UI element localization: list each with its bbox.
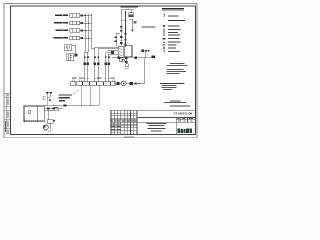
drain header valve <box>64 105 67 107</box>
drain pump base <box>44 131 53 132</box>
pump run joint dot <box>139 83 140 84</box>
pump run valve 1 <box>117 82 120 85</box>
drain header pipe <box>40 105 99 107</box>
expansion tank drop <box>130 10 132 13</box>
drain pump drop <box>48 111 50 120</box>
drain header label <box>59 100 65 101</box>
tank outlet pipes <box>44 109 63 111</box>
riser crossover tick <box>121 20 127 22</box>
tank outlet valves <box>47 107 55 109</box>
pump circles under boiler <box>119 59 125 62</box>
main riser supply <box>120 10 122 47</box>
legend rows <box>168 15 185 51</box>
heating circuit row 4 unit box <box>70 36 92 39</box>
legend title <box>162 8 184 11</box>
manifold drain drops <box>81 85 99 105</box>
riser pair A <box>85 52 89 82</box>
title block texts <box>111 112 193 133</box>
riser union ticks <box>84 78 110 80</box>
pump run check valve <box>135 83 137 85</box>
supply risers from circuits <box>85 14 95 53</box>
gas label <box>142 26 156 27</box>
coil unit box below <box>67 54 78 61</box>
right drop pipe <box>143 58 145 84</box>
gas meter cluster <box>141 50 156 58</box>
boiler body <box>124 45 132 56</box>
heating circuit row 2 unit box <box>70 21 92 24</box>
riser balance valves large <box>84 63 111 66</box>
heating circuit row 3 unit box <box>70 29 92 32</box>
riser valves small <box>84 57 110 59</box>
boiler left connections <box>108 50 118 54</box>
riser fitting stack <box>120 26 127 45</box>
make-up pipe label top <box>120 6 138 10</box>
pump run right of manifold <box>116 83 145 85</box>
distribution manifold <box>70 82 116 86</box>
riser pair C <box>106 53 113 82</box>
tank water hatch band <box>24 120 42 122</box>
left margin column strip <box>4 93 10 135</box>
main riser return <box>125 11 127 46</box>
tank feed drop <box>42 105 44 107</box>
company logo <box>177 128 192 133</box>
heating circuit row 2 label <box>54 22 68 23</box>
note text above titleblock (block A) <box>160 83 185 90</box>
heating circuit row 3 label <box>56 30 68 31</box>
small text near tank pipes <box>54 106 59 109</box>
legend notes block 1 <box>167 63 188 66</box>
legend notes block 2 <box>166 69 186 74</box>
heating circuit row 4 label <box>54 37 68 38</box>
riser union ticks upper <box>120 29 126 41</box>
legend symbols column <box>163 14 166 53</box>
sheet outer edge <box>4 4 197 138</box>
boiler heat exchanger <box>118 46 123 57</box>
format label under frame <box>124 136 134 137</box>
condensate tank <box>24 106 44 122</box>
manifold labels <box>72 77 115 80</box>
heat exchanger coil <box>65 45 76 54</box>
drawing frame <box>11 6 196 135</box>
three-way valve cluster <box>125 57 129 69</box>
safety group valves <box>46 92 52 101</box>
coil outlet valve <box>74 53 77 56</box>
drain label leader <box>72 90 79 96</box>
safety discharge pipe <box>129 19 136 32</box>
drain filter box <box>47 120 55 130</box>
pipe below boiler <box>112 57 144 59</box>
side instrument line <box>115 33 120 46</box>
boiler loop pump <box>111 51 114 55</box>
left margin vertical text marks <box>5 94 9 134</box>
safety group risers <box>47 93 50 105</box>
drain labels <box>58 95 72 99</box>
manifold top connection ticks <box>73 80 115 82</box>
pump run valve 2 <box>130 82 133 85</box>
vent tee symbol <box>42 97 45 99</box>
heating circuit row 1 unit box <box>70 14 92 17</box>
heating circuit row 1 label <box>55 15 68 16</box>
note text above titleblock (block B) <box>164 100 190 106</box>
pump run circulation pump <box>121 81 126 86</box>
pump run inlet tick <box>113 82 115 84</box>
svg-text:СТ-020371-ОВ: СТ-020371-ОВ <box>173 112 192 116</box>
expansion tank <box>129 13 133 17</box>
riser pair B <box>95 47 118 82</box>
title block (GOST form 1) <box>110 110 195 134</box>
drain pump <box>43 125 48 130</box>
